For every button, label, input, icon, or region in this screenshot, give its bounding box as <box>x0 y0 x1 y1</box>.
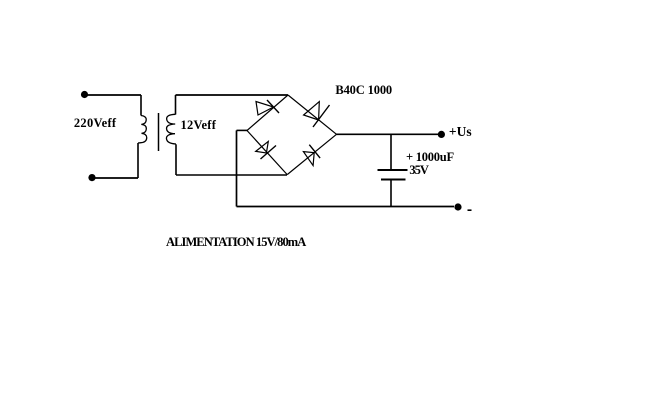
capacitor C1 top lead <box>390 134 392 170</box>
capacitor C1 top plate <box>378 169 408 171</box>
wire bridge right to +Us <box>337 133 439 135</box>
wire secondary bottom vertical <box>175 144 177 175</box>
capacitor C1 bottom plate <box>381 179 406 181</box>
label 35V <box>409 164 428 177</box>
terminal dot minus <box>454 203 461 210</box>
diode D1 top-left <box>256 100 279 115</box>
wire primary top vertical <box>140 95 142 116</box>
label + 1000uF <box>406 151 454 164</box>
label ALIMENTATION 15V/80mA <box>166 236 305 249</box>
label B40C 1000 <box>335 84 392 97</box>
label 12Veff <box>181 119 217 132</box>
label 220Veff <box>74 117 116 130</box>
wire secondary bottom to bridge bottom <box>176 174 287 176</box>
terminal dot bottom-left (220V input -) <box>88 174 95 181</box>
wire left vertical down <box>236 130 238 206</box>
capacitor C1 bottom lead <box>390 180 392 207</box>
minus sign at output <box>468 209 472 211</box>
diode D3 bottom-left <box>256 141 276 159</box>
transformer secondary winding L2 <box>166 114 176 144</box>
bridge edge top-left <box>247 95 288 131</box>
wire 220V bottom <box>92 177 138 179</box>
wire 220V top <box>85 94 142 96</box>
bridge edge top-right <box>288 95 337 134</box>
diode D2 top-right <box>304 102 330 127</box>
wire bottom rail <box>237 206 455 208</box>
wire bridge left stub <box>237 129 248 131</box>
diode D4 bottom-right <box>303 145 320 166</box>
wire secondary top to bridge top <box>176 94 289 96</box>
transformer core <box>158 113 160 151</box>
terminal dot top-left (220V input +) <box>81 91 88 98</box>
wire secondary top vertical <box>175 95 177 115</box>
bridge edge bottom-right <box>287 134 336 174</box>
wire primary bottom vertical <box>137 143 139 178</box>
terminal dot +Us <box>438 131 445 138</box>
transformer primary winding L1 <box>138 116 147 144</box>
bridge edge bottom-left <box>247 131 287 175</box>
label +Us <box>449 125 472 139</box>
